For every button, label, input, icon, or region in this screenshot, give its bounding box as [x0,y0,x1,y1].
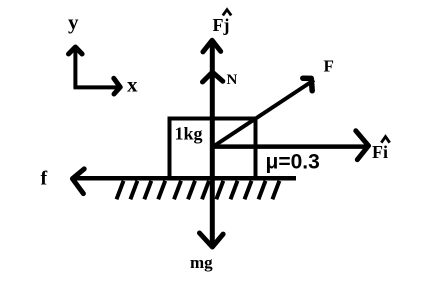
svg-text:f: f [41,168,48,190]
svg-text:μ=0.3: μ=0.3 [266,150,320,173]
svg-text:Fi: Fi [372,142,388,162]
svg-text:N: N [227,72,238,88]
svg-text:y: y [68,10,79,34]
svg-text:x: x [127,72,138,96]
svg-text:Fj: Fj [213,15,230,35]
svg-text:mg: mg [190,253,213,272]
svg-text:1kg: 1kg [175,124,203,144]
svg-text:F: F [324,57,334,76]
